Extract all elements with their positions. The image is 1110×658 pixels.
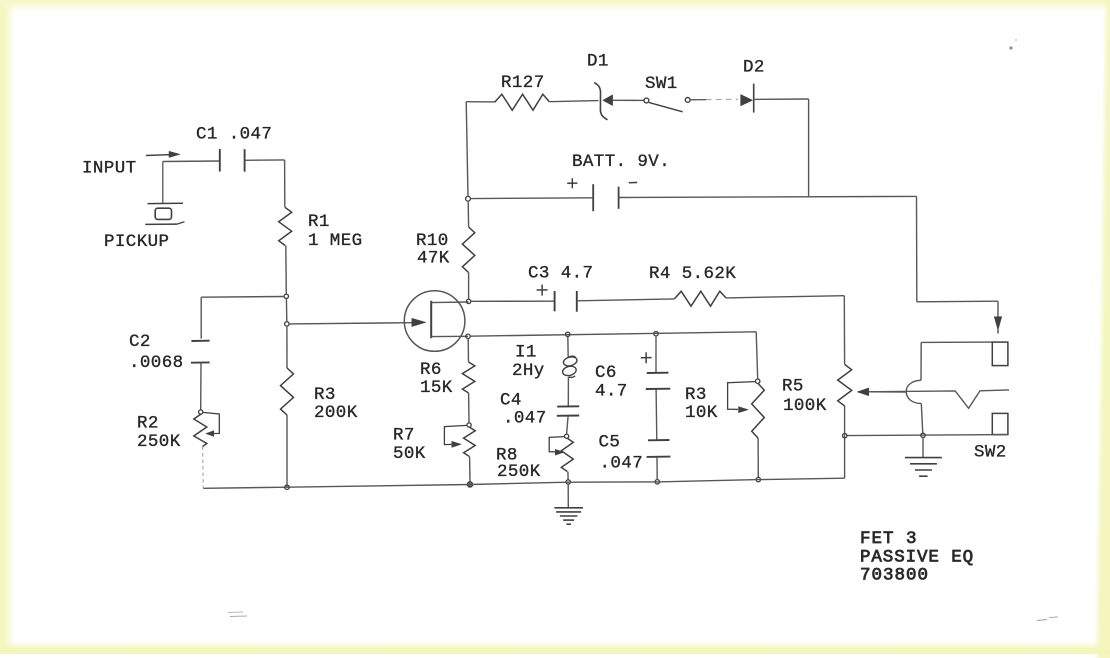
wire battery left (470, 197, 592, 200)
svg-text:1 MEG: 1 MEG (308, 231, 363, 251)
capacitor C4 (557, 406, 579, 416)
wire battery node up to R127 (466, 102, 468, 197)
battery minus sign (629, 182, 637, 184)
potentiometer R5 (838, 365, 852, 407)
C3 plus sign (537, 285, 548, 296)
svg-text:50K: 50K (393, 444, 426, 464)
jack plug bump (906, 380, 921, 403)
resistor R1 label (308, 212, 330, 232)
transistor Q1 FET (404, 291, 468, 352)
resistor R1 (279, 208, 292, 246)
potentiometer R2 (194, 410, 220, 447)
svg-text:SW2: SW2 (974, 443, 1007, 463)
svg-text:C5: C5 (599, 433, 621, 453)
potentiometer R7 value (393, 444, 426, 464)
switch SW1 (644, 98, 690, 112)
wire C4 to R8 (567, 416, 569, 434)
svg-text:C3 4.7: C3 4.7 (528, 264, 593, 284)
capacitor C6 (646, 373, 671, 389)
wire R6 to R7 (468, 393, 470, 423)
svg-text:SW1: SW1 (645, 74, 678, 94)
jack sleeve wire (847, 435, 1008, 436)
scan border left (0, 0, 15, 654)
jack sleeve contact (992, 413, 1008, 434)
wire R7 to bottom rail (469, 457, 471, 485)
wire SW1 to D2 (690, 98, 738, 101)
wire node A to node B (285, 298, 287, 321)
scan border top (0, 0, 1110, 11)
resistor R3 label (314, 385, 336, 405)
wire battery right (619, 196, 917, 197)
wire R127 to D1 (549, 101, 598, 102)
potentiometer R7 (444, 423, 475, 457)
potentiometer R8 value (497, 462, 541, 482)
potentiometer R8 label (496, 446, 518, 466)
svg-text:250K: 250K (137, 432, 181, 452)
capacitor C5 label (599, 433, 621, 453)
svg-text:200K: 200K (314, 403, 358, 423)
wire rail corner down (756, 332, 758, 379)
wire node B down to R3 (286, 326, 288, 368)
title line PASSIVE EQ (860, 548, 974, 568)
switch SW2 label (974, 443, 1007, 463)
wire right drop down (916, 196, 918, 301)
potentiometer R2 label (137, 414, 159, 434)
diode D1 label (587, 52, 609, 72)
resistor R10 label (416, 231, 449, 251)
pickup label (104, 232, 169, 252)
node label INPUT (82, 159, 137, 179)
svg-text:R4 5.62K: R4 5.62K (649, 264, 736, 284)
diode D2 label (743, 58, 765, 78)
node source junction (466, 334, 470, 338)
wire right drop horizontal (917, 300, 998, 303)
resistor R10 value (417, 249, 450, 269)
wire R127 left (466, 101, 495, 103)
wire input down to pickup (162, 162, 164, 204)
resistor R6 (462, 362, 474, 393)
node bottom rail R7 junction (467, 482, 472, 487)
svg-text:BATT. 9V.: BATT. 9V. (572, 152, 670, 172)
potentiometer R8 (549, 434, 573, 471)
capacitor C4 label (500, 391, 522, 411)
jack top wire (921, 341, 992, 343)
capacitor C3 label (528, 264, 593, 284)
svg-text:.047: .047 (503, 409, 547, 429)
wire gate (289, 323, 412, 324)
wire R8 to bottom rail (567, 472, 569, 480)
resistor R6 value (420, 378, 453, 398)
title line FET 3 (860, 529, 918, 549)
jack tip contact (992, 342, 1008, 366)
battery label BATT. 9V. (572, 152, 670, 172)
capacitor C2 label (129, 332, 151, 352)
wire R5 to bottom rail (844, 406, 846, 478)
node jack ground junction (921, 433, 925, 437)
potentiometer R2 value (137, 432, 181, 452)
R5 wiper arrow (857, 388, 906, 396)
svg-text:2Hy: 2Hy (512, 361, 545, 381)
wire D2 down to battery line (808, 99, 810, 197)
node R5 sleeve junction (843, 434, 847, 438)
capacitor C3 (555, 291, 577, 312)
svg-text:250K: 250K (497, 462, 541, 482)
wire I1 top (567, 337, 569, 358)
potentiometer R5 label (782, 377, 804, 397)
wire C6 top (655, 336, 657, 373)
svg-text:100K: 100K (783, 396, 827, 416)
capacitor C6 label (595, 363, 617, 383)
svg-text:R6: R6 (420, 360, 442, 380)
wire C2 to R2 (200, 363, 202, 410)
svg-text:R5: R5 (782, 377, 804, 397)
svg-text:R2: R2 (137, 414, 159, 434)
jack left vertical upper (920, 342, 922, 380)
svg-text:.0068: .0068 (129, 353, 184, 373)
wire R4 right (726, 296, 844, 298)
svg-text:PASSIVE EQ: PASSIVE EQ (860, 548, 974, 568)
capacitor C1 value label (196, 125, 272, 145)
C6 plus sign (641, 352, 652, 363)
wire node A to C2 (201, 296, 284, 299)
diode D2 (741, 84, 809, 113)
ground stub below rail (567, 484, 569, 507)
svg-text:R127: R127 (501, 73, 545, 93)
svg-text:R1: R1 (308, 212, 330, 232)
resistor R4 (675, 291, 727, 306)
title line 703800 (860, 566, 929, 586)
wire I1 to C4 (567, 377, 569, 406)
wire R3 10K to bottom rail (757, 438, 759, 477)
potentiometer R3 10K value (685, 403, 718, 423)
wire C2 top (200, 297, 202, 338)
bottom rail wire (203, 478, 844, 488)
battery plus sign (567, 178, 577, 188)
node battery-left junction (466, 196, 471, 201)
svg-text:R3: R3 (314, 385, 336, 405)
wire drain to C3 (471, 300, 555, 302)
pickup symbol (145, 203, 184, 224)
resistor R3 200K (281, 368, 294, 415)
svg-text:R3: R3 (685, 385, 707, 405)
wire corner down to R1 (284, 160, 286, 208)
node B junction (285, 322, 289, 326)
wire drain to R10 (468, 273, 470, 300)
svg-text:PICKUP: PICKUP (104, 232, 169, 252)
svg-text:INPUT: INPUT (82, 159, 137, 179)
svg-text:R7: R7 (393, 426, 415, 446)
potentiometer R3 10K (728, 382, 765, 438)
svg-text:4.7: 4.7 (595, 382, 628, 402)
node R3 10K top junction (756, 379, 760, 383)
wire input to C1 (163, 160, 220, 163)
node I1 junction (566, 332, 570, 336)
wire C3 to R4 (577, 299, 675, 301)
inductor I1 label (515, 343, 537, 363)
node bottom rail C5 junction (655, 480, 659, 484)
svg-text:D2: D2 (743, 58, 765, 78)
jack tip spring with detent (869, 390, 1009, 408)
ground main (554, 508, 583, 524)
node A junction (284, 294, 288, 298)
svg-text:FET 3: FET 3 (860, 529, 918, 549)
jack ground wire (922, 438, 924, 458)
capacitor C4 value (503, 409, 547, 429)
capacitor C2 value (129, 353, 184, 373)
arrow to jack tip (994, 301, 1001, 333)
resistor R6 label (420, 360, 442, 380)
svg-text:C1 .047: C1 .047 (196, 125, 272, 145)
svg-text:D1: D1 (587, 52, 609, 72)
wire R3 to bottom rail (286, 415, 288, 487)
svg-text:C4: C4 (500, 391, 522, 411)
jack left vertical lower (921, 403, 923, 434)
node bottom rail R3-200K junction (285, 485, 289, 489)
battery B1 (593, 184, 618, 211)
wire C5 to bottom rail (656, 457, 658, 480)
scan mark bottom-left (228, 612, 247, 617)
node drain junction (466, 299, 470, 303)
svg-text:.047: .047 (600, 454, 644, 474)
wire R10 to battery line (467, 201, 469, 227)
capacitor C2 (191, 341, 210, 363)
potentiometer R7 label (393, 426, 415, 446)
potentiometer R5 value (783, 396, 827, 416)
svg-text:C6: C6 (595, 363, 617, 383)
node bottom rail R3 junction (756, 477, 760, 481)
wire source rail (470, 332, 756, 336)
input arrow (146, 151, 180, 157)
ground at jack (905, 458, 942, 477)
resistor R10 (462, 227, 474, 273)
svg-text:15K: 15K (420, 378, 453, 398)
resistor R3 value (314, 403, 358, 423)
diode D1 (594, 83, 644, 120)
wire C6 to C5 (655, 389, 658, 440)
scan mark bottom-right (1037, 617, 1058, 621)
wire C1 to corner (245, 159, 285, 161)
capacitor C1 (220, 149, 245, 172)
scan border bottom (0, 641, 1110, 654)
scan border right (1094, 0, 1110, 658)
wire R1 to node A (285, 246, 288, 295)
node C6 junction (654, 332, 658, 336)
svg-text:C2: C2 (129, 332, 151, 352)
potentiometer R3 10K label (685, 385, 707, 405)
svg-text:703800: 703800 (860, 566, 929, 586)
resistor R127 label (501, 73, 545, 93)
wire R4 corner down to R5 (843, 296, 845, 365)
scan speck top-right (1009, 39, 1017, 50)
capacitor C6 value (595, 382, 628, 402)
resistor R127 (495, 94, 550, 110)
wire R2 to bottom rail (202, 447, 205, 488)
switch SW1 label (645, 74, 678, 94)
node bottom rail R8 junction (566, 480, 570, 484)
inductor I1 (562, 356, 578, 378)
resistor R1 value (308, 231, 363, 251)
inductor I1 value (512, 361, 545, 381)
capacitor C5 value (600, 454, 644, 474)
svg-text:I1: I1 (515, 343, 537, 363)
wire source to R6 (467, 339, 469, 363)
resistor R4 label (649, 264, 736, 284)
svg-text:47K: 47K (417, 249, 450, 269)
svg-text:10K: 10K (685, 403, 718, 423)
capacitor C5 (647, 440, 671, 457)
